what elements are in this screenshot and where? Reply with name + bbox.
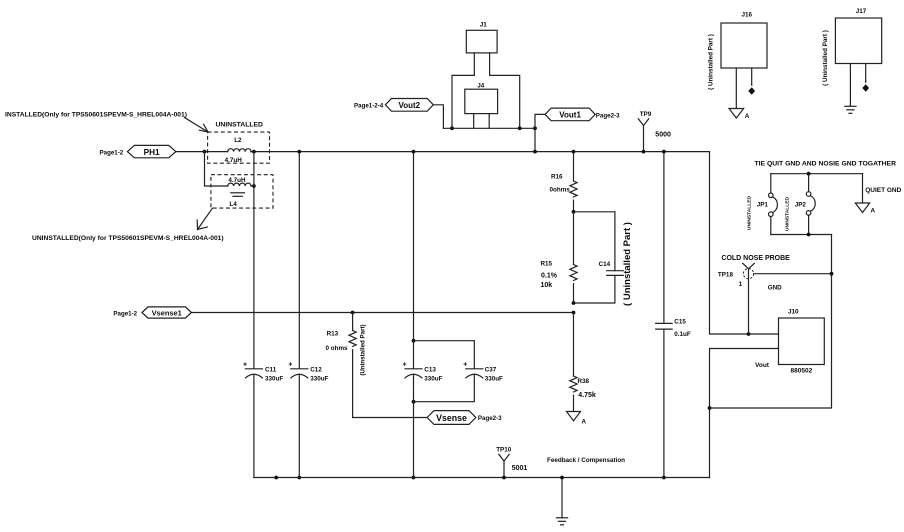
ground A (R38)	[567, 412, 587, 426]
connector J1	[466, 22, 497, 53]
wire C37 branch top	[414, 341, 475, 369]
svg-text:UNINSTALLED: UNINSTALLED	[747, 195, 753, 230]
note GND label	[768, 284, 782, 291]
junction dot L2 left	[203, 150, 207, 154]
junction dot C15 bottom	[662, 476, 666, 480]
wire J10 pin2 to bottom bus	[710, 349, 779, 478]
wire Vout1 to bus	[535, 114, 545, 151]
svg-text:JP2: JP2	[795, 202, 807, 209]
junction dot R16 at bus	[572, 150, 576, 154]
svg-text:A: A	[582, 419, 587, 426]
svg-text:J16: J16	[742, 12, 753, 19]
svg-text:J4: J4	[477, 83, 485, 90]
note Feedback / Compensation	[547, 457, 625, 464]
svg-text:C15: C15	[674, 318, 686, 325]
svg-text:330uF: 330uF	[485, 375, 503, 382]
inductor L2 dashed box	[208, 132, 270, 163]
junction dot C13 loop bottom	[412, 400, 416, 404]
svg-text:J1: J1	[480, 22, 488, 29]
note UNINSTALLED JP1	[747, 195, 753, 230]
junction dot JP bottom rail	[807, 233, 811, 237]
wire R13 to Vsense	[353, 417, 428, 419]
wire L4 right	[251, 185, 254, 187]
junction dot Vout1 at bus	[533, 150, 537, 154]
svg-text:TIE QUIT GND AND NOSIE GND TOG: TIE QUIT GND AND NOSIE GND TOGATHER	[755, 160, 897, 167]
svg-text:( Uninstalled Part ): ( Uninstalled Part )	[822, 30, 829, 86]
note (Uninstalled Part) J16	[708, 34, 715, 90]
svg-text:UNINSTALLED(Only for TPS50601S: UNINSTALLED(Only for TPS50601SPEVM-S_HRE…	[32, 235, 224, 242]
junction dot Vout1 drop	[533, 126, 537, 130]
ground A (quiet gnd)	[855, 174, 875, 215]
note (Uninstalled Part) R13	[360, 324, 367, 375]
svg-text:Page2-3: Page2-3	[478, 415, 502, 422]
svg-text:JP1: JP1	[757, 202, 769, 209]
svg-text:Vsense: Vsense	[436, 413, 467, 423]
junction dot J wire right	[518, 126, 522, 130]
junction dot C12 bottom	[297, 476, 301, 480]
svg-text:R16: R16	[551, 174, 563, 181]
svg-text:A: A	[871, 208, 876, 215]
wire C12 vertical from bus	[298, 152, 300, 369]
arrow from L4 box	[197, 208, 212, 229]
note UNINSTALLED annotation	[32, 235, 224, 242]
resistor R15	[541, 212, 578, 303]
svg-text:UNINSTALLED: UNINSTALLED	[785, 196, 791, 231]
junction dot ground bottom	[560, 476, 564, 480]
svg-text:C37: C37	[485, 366, 497, 373]
wire loop to JP column	[710, 235, 832, 409]
wire C11 vertical from bus	[253, 152, 255, 369]
svg-text:Feedback / Compensation: Feedback / Compensation	[547, 457, 625, 464]
svg-text:Vout2: Vout2	[398, 101, 420, 110]
svg-text:( Uninstalled Part ): ( Uninstalled Part )	[622, 222, 633, 306]
svg-text:330uF: 330uF	[265, 375, 283, 382]
svg-text:R38: R38	[578, 378, 590, 385]
svg-text:R15: R15	[541, 261, 553, 268]
svg-text:330uF: 330uF	[310, 375, 328, 382]
svg-text:Page1-2: Page1-2	[100, 149, 124, 156]
ground A (J16)	[729, 109, 750, 121]
svg-text:Page1-2: Page1-2	[113, 310, 137, 317]
wire J1-J4 bottom	[443, 127, 535, 129]
svg-text:5000: 5000	[655, 132, 671, 139]
node Vsense1 off-page connector	[113, 307, 191, 318]
svg-text:0.1%: 0.1%	[541, 273, 558, 280]
ground GND bottom	[556, 478, 567, 525]
junction dot C14 bottom	[572, 301, 576, 305]
svg-text:C13: C13	[424, 366, 436, 373]
note (Uninstalled Part) J17	[822, 30, 829, 86]
junction dot J wire left	[450, 126, 454, 130]
svg-text:TP9: TP9	[640, 111, 652, 118]
svg-text:+: +	[463, 361, 467, 368]
svg-text:L4: L4	[229, 201, 237, 208]
note UNINSTALLED (L2 box)	[216, 122, 264, 129]
node Vsense off-page connector	[427, 411, 502, 425]
svg-text:C11: C11	[265, 366, 277, 373]
svg-text:L2: L2	[234, 137, 242, 144]
node Vout1 off-page connector	[545, 108, 620, 121]
svg-text:880502: 880502	[791, 367, 813, 374]
inductor L4 dashed box	[211, 175, 273, 208]
svg-text:INSTALLED(Only for TPS50601SPE: INSTALLED(Only for TPS50601SPEVM-S_HREL0…	[5, 112, 187, 119]
wire Vout2 to J wire	[433, 105, 443, 129]
svg-text:0.1uF: 0.1uF	[674, 331, 691, 338]
wire J4 left pin	[473, 114, 475, 129]
junction dot TP9	[642, 150, 646, 154]
svg-text:330uF: 330uF	[424, 375, 442, 382]
svg-text:( Uninstalled Part ): ( Uninstalled Part )	[708, 34, 715, 90]
wire JP top rail	[771, 173, 863, 175]
svg-text:J17: J17	[856, 8, 867, 15]
wire JP bottom rail	[771, 234, 832, 236]
capacitor C37	[463, 361, 503, 382]
svg-text:5001: 5001	[512, 465, 528, 472]
junction dot right loop	[708, 406, 712, 410]
no-connect diamond J16	[748, 84, 755, 95]
jumper JP1	[757, 174, 778, 235]
junction dot bottom bus x276	[274, 476, 278, 480]
wire J1 right pin	[490, 53, 520, 128]
wire probe to gnd column	[754, 273, 832, 275]
svg-text:Page1-2-4: Page1-2-4	[354, 102, 384, 109]
capacitor C13	[403, 361, 443, 382]
capacitor C14 branch	[574, 212, 624, 303]
junction dot R13 top	[351, 311, 355, 315]
wire bus corner to J10 pin1	[710, 152, 779, 334]
wire J1 left pin	[452, 53, 474, 128]
svg-text:R13: R13	[327, 331, 339, 338]
jumper JP2	[795, 174, 816, 235]
svg-text:PH1: PH1	[144, 148, 160, 157]
junction dot JP top rail	[807, 172, 811, 176]
wire PH1 bus (y=151.6)	[176, 151, 710, 153]
svg-text:(Uninstalled Part): (Uninstalled Part)	[360, 324, 367, 375]
wire J16 pin1	[735, 68, 737, 109]
svg-text:J10: J10	[788, 308, 799, 315]
capacitor C15	[656, 152, 691, 478]
capacitor C11	[243, 361, 283, 382]
svg-text:Vout1: Vout1	[559, 111, 581, 120]
connector J16	[721, 12, 767, 68]
junction dot C12 top	[297, 150, 301, 154]
connector J4	[465, 83, 498, 114]
note (Uninstalled Part) C14	[622, 222, 633, 306]
junction dot C13 top	[412, 150, 416, 154]
junction dot C14 top	[572, 210, 576, 214]
junction dot Vsense1 at R15 chain	[572, 311, 576, 315]
svg-text:0ohms: 0ohms	[550, 187, 571, 194]
note TIE GND header	[755, 160, 897, 167]
svg-text:+: +	[288, 361, 292, 368]
wire C13 vertical from bus	[413, 152, 415, 369]
junction dot L2 right	[252, 150, 256, 154]
wire PH1 to L4	[205, 152, 228, 186]
junction dot TP10	[502, 476, 506, 480]
svg-text:COLD NOSE PROBE: COLD NOSE PROBE	[721, 255, 790, 262]
resistor R38	[570, 313, 596, 412]
node PH1 off-page connector	[100, 145, 176, 157]
wire bottom bus	[254, 477, 710, 479]
wire C37 branch bottom	[414, 374, 475, 401]
junction dot C13 loop top	[412, 339, 416, 343]
arrow to L2 box	[185, 118, 209, 133]
junction dot C13 bottom	[412, 476, 416, 480]
wire C12 to bottom bus	[298, 374, 300, 477]
ground GND (J17)	[845, 106, 856, 113]
wire C11 to bottom bus	[253, 374, 255, 477]
node Vout2 off-page connector	[354, 99, 433, 112]
no-connect diamond J17	[862, 81, 869, 92]
inductor L2	[225, 137, 251, 164]
svg-text:1: 1	[739, 281, 743, 288]
svg-text:Vsense1: Vsense1	[152, 309, 182, 318]
svg-text:GND: GND	[768, 284, 782, 291]
svg-text:+: +	[403, 361, 407, 368]
resistor R16	[550, 152, 578, 212]
svg-text:UNINSTALLED: UNINSTALLED	[216, 122, 264, 129]
junction dot probe at pin1	[747, 332, 751, 336]
svg-text:0 ohms: 0 ohms	[326, 345, 349, 352]
wire J17 pin1	[849, 64, 851, 106]
resistor R13	[326, 313, 357, 418]
note UNINSTALLED JP2	[785, 196, 791, 231]
svg-text:Page2-3: Page2-3	[596, 112, 620, 119]
svg-text:A: A	[745, 113, 750, 120]
svg-text:4.7uH: 4.7uH	[225, 157, 243, 164]
probe TP18	[718, 255, 790, 334]
svg-text:QUIET GND: QUIET GND	[865, 187, 901, 194]
connector J17	[835, 8, 881, 64]
note INSTALLED annotation	[5, 112, 187, 119]
wire J4 right pin	[488, 114, 490, 129]
testpoint TP10	[496, 446, 527, 477]
connector J10	[755, 308, 824, 374]
svg-text:C14: C14	[599, 261, 611, 268]
junction dot L4 right	[252, 184, 256, 188]
svg-text:10k: 10k	[541, 282, 553, 289]
testpoint TP9	[638, 111, 671, 152]
svg-text:Vout: Vout	[755, 362, 770, 369]
junction dot probe wire	[830, 272, 834, 276]
capacitor C12	[288, 361, 328, 382]
inductor L4	[228, 177, 251, 208]
svg-text:C12: C12	[310, 366, 322, 373]
wire J17 pin2	[865, 64, 867, 82]
svg-text:TP18: TP18	[718, 271, 734, 278]
wire Vsense1 to R15 junction	[191, 312, 573, 314]
svg-text:4.75k: 4.75k	[578, 392, 596, 399]
wire J16 pin2	[751, 68, 753, 85]
svg-text:+: +	[243, 361, 247, 368]
note QUIET GND	[865, 187, 901, 194]
junction dot C15 top	[662, 150, 666, 154]
wire C13 to bottom bus	[413, 374, 415, 477]
svg-text:TP10: TP10	[496, 446, 512, 453]
